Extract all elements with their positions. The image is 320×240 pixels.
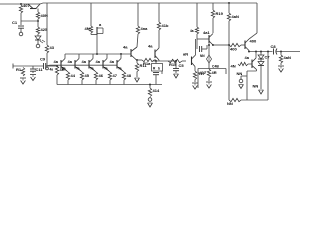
label Q5	[82, 59, 87, 64]
label Q6	[96, 59, 101, 64]
label Q12	[250, 39, 257, 44]
resistor R16 R11	[135, 60, 138, 72]
wire feedback bottom	[241, 99, 268, 101]
svg-text:C7: C7	[265, 55, 271, 60]
ground R21	[206, 78, 212, 89]
wire rail drop x197	[196, 3, 198, 39]
svg-text:4a: 4a	[190, 29, 194, 33]
ground C5	[174, 74, 179, 78]
svg-text:Ta: Ta	[118, 67, 122, 71]
label D2	[265, 55, 271, 60]
svg-text:43: 43	[50, 45, 55, 50]
wire D3 down	[260, 66, 262, 90]
wire Q11 base	[197, 38, 209, 40]
pin Q13 gnd	[239, 79, 244, 88]
resistor R8 4N	[227, 3, 230, 45]
svg-text:R: R	[153, 67, 156, 71]
resistor R7 R19	[211, 3, 214, 33]
svg-text:4N: 4N	[85, 26, 90, 31]
capacitor C9 series	[44, 63, 46, 69]
wire input y66	[13, 64, 43, 69]
transistor Q9	[155, 48, 159, 60]
resistor R17 R13	[142, 58, 154, 61]
transistor Q7	[117, 54, 124, 72]
label R11	[71, 73, 76, 78]
svg-text:46: 46	[99, 73, 104, 78]
label C9	[40, 57, 46, 62]
wire collector bus y54	[65, 53, 131, 55]
wire Q12 collector	[249, 33, 257, 39]
wire emitter y45	[213, 44, 229, 46]
transistor Q13	[245, 55, 257, 70]
svg-text:44: 44	[71, 73, 76, 78]
label D3	[253, 84, 259, 89]
ground C11	[30, 75, 36, 81]
wire output node y52	[248, 51, 273, 53]
pin 3 terminal	[36, 44, 40, 48]
resistor R9 R1	[21, 68, 24, 77]
label C11	[36, 67, 44, 72]
label Q4	[68, 59, 73, 64]
wire rail right corner drop	[256, 3, 258, 33]
svg-text:C4B: C4B	[212, 65, 219, 69]
pin R18 terminal	[148, 98, 153, 107]
pin 14 terminal	[46, 53, 49, 70]
svg-text:4a: 4a	[123, 45, 128, 50]
capacitor C5	[173, 61, 179, 73]
svg-text:NN: NN	[237, 71, 243, 76]
resistor R2 40N	[36, 12, 39, 27]
label Q11	[203, 30, 210, 35]
svg-text:aN: aN	[183, 52, 188, 57]
diode D1	[35, 36, 45, 44]
label C8	[271, 44, 277, 49]
label R20 R17	[198, 71, 206, 76]
label R21 417	[200, 70, 207, 75]
svg-text:NN: NN	[200, 54, 205, 58]
ground R23	[278, 63, 284, 72]
resistor R5	[89, 26, 92, 33]
label R27	[190, 29, 194, 33]
wire Q10 collector	[195, 39, 197, 55]
label R12	[85, 73, 90, 78]
node load	[280, 51, 282, 53]
label R22 400	[230, 47, 237, 52]
transistor Q10	[192, 55, 196, 67]
current source I1	[200, 44, 212, 63]
resistor R21 417	[207, 69, 210, 78]
label R7 R19	[216, 11, 224, 16]
svg-text:R1: R1	[16, 67, 22, 72]
wire Q13 emitter	[237, 70, 257, 101]
diode D3	[258, 59, 264, 66]
diode D2	[258, 51, 264, 60]
label R13	[99, 73, 104, 78]
label R24 NN	[227, 101, 233, 106]
svg-text:47: 47	[113, 73, 118, 78]
label R21b	[212, 70, 217, 75]
svg-text:R1a: R1a	[143, 61, 151, 66]
node A junction on input wire	[20, 3, 22, 5]
label R10 4R	[60, 67, 65, 72]
label Q5b	[90, 67, 94, 71]
svg-text:400: 400	[250, 39, 257, 44]
label R8 4N	[232, 14, 239, 19]
label C1	[12, 20, 18, 25]
svg-text:NN: NN	[253, 84, 259, 89]
resistor R18 414	[148, 84, 151, 97]
transistor Q6	[103, 54, 110, 72]
svg-text:4a: 4a	[82, 59, 87, 64]
pin 2 terminal	[19, 32, 23, 36]
svg-text:C8: C8	[271, 44, 277, 49]
transistor Q5	[89, 54, 96, 72]
label R16 R11	[140, 63, 148, 68]
resistor R19b R15	[168, 59, 182, 62]
svg-text:R19: R19	[216, 11, 224, 16]
ground R20	[192, 80, 198, 90]
wire ground bus y85	[57, 84, 162, 86]
resistor R4 43	[45, 45, 48, 53]
svg-text:4a: 4a	[68, 59, 73, 64]
node rail x229	[228, 2, 230, 4]
label R4 43	[50, 45, 55, 50]
transistor Q1	[28, 4, 40, 9]
wire box stub	[161, 71, 163, 74]
wire feedback right edge	[267, 51, 269, 101]
svg-text:Ta: Ta	[76, 67, 80, 71]
resistor R23 load	[279, 52, 282, 64]
svg-text:4a: 4a	[50, 68, 54, 72]
resistor R11	[66, 72, 69, 85]
label Q10	[183, 52, 188, 57]
svg-text:45: 45	[85, 73, 90, 78]
ground D3	[259, 90, 264, 94]
wire Q8 emitter	[136, 59, 142, 61]
resistor R13	[94, 72, 97, 85]
capacitor C8	[274, 49, 278, 55]
svg-text:4aN: 4aN	[284, 55, 291, 60]
wire Q13 collector	[255, 51, 257, 59]
svg-text:Ta: Ta	[90, 67, 94, 71]
ground R9	[20, 78, 26, 84]
label Q8	[123, 45, 128, 50]
label R2 40N	[41, 13, 48, 18]
wire node row y21	[21, 20, 39, 22]
resistor R14	[108, 72, 111, 85]
label pin 14	[50, 68, 54, 72]
wire Q9 out	[153, 60, 176, 61]
wire rail drop x138	[137, 3, 139, 26]
transistor Q2 mirror	[91, 22, 103, 35]
resistor R22 400	[229, 43, 241, 46]
svg-text:4a: 4a	[245, 55, 250, 60]
svg-text:R15: R15	[169, 62, 177, 67]
label R14	[113, 73, 118, 78]
resistor R20 R17	[193, 71, 196, 80]
node feedback	[228, 44, 230, 46]
label Q3	[54, 59, 59, 64]
svg-text:4a: 4a	[110, 59, 115, 64]
transistor Q3	[61, 54, 68, 72]
node C5	[175, 60, 177, 62]
svg-text:NN: NN	[227, 101, 233, 106]
label R26	[162, 23, 169, 28]
wire rail drop x91	[90, 3, 92, 26]
label R15	[127, 73, 132, 78]
label Q7	[110, 59, 115, 64]
transistor Q12	[245, 39, 249, 51]
wire y68 row	[198, 65, 226, 89]
node Q11 emitter	[212, 44, 214, 46]
svg-text:4a1: 4a1	[203, 30, 210, 35]
resistor R1 407	[19, 5, 22, 21]
wire base bus y66	[46, 64, 117, 67]
wire R15 to Q10	[182, 60, 186, 62]
wire top supply rail	[0, 3, 257, 4]
transistor Q4	[75, 54, 82, 72]
wire to Q9	[154, 59, 156, 61]
wire to Q12 base	[241, 44, 245, 46]
svg-text:4a: 4a	[148, 44, 153, 49]
label R19b R15	[169, 62, 177, 67]
resistor R27	[195, 27, 198, 34]
capacitor C11	[30, 66, 36, 73]
svg-text:4na: 4na	[141, 26, 149, 31]
label R3 425	[41, 27, 48, 32]
svg-text:C1: C1	[12, 20, 18, 25]
svg-text:414: 414	[153, 88, 160, 93]
label Q9	[148, 44, 153, 49]
wire rail drop x47	[46, 3, 48, 45]
svg-text:4a: 4a	[96, 59, 101, 64]
resistor R24 NN	[229, 98, 241, 101]
resistor R15	[122, 72, 125, 85]
svg-text:C11: C11	[36, 67, 44, 72]
svg-text:4N: 4N	[231, 64, 236, 69]
svg-text:4R: 4R	[212, 70, 217, 75]
wire after C9	[46, 65, 57, 67]
wire feedback left edge	[228, 45, 230, 100]
label R25	[231, 64, 236, 69]
node x57	[56, 65, 58, 67]
wire output right	[277, 51, 301, 53]
resistor R3 425	[36, 27, 39, 36]
label R17 R13	[143, 61, 151, 66]
label R6	[141, 26, 149, 31]
label Q4b	[76, 67, 80, 71]
svg-text:400: 400	[230, 47, 237, 52]
svg-text:4aN: 4aN	[232, 14, 239, 19]
label R1 407	[23, 3, 30, 8]
capacitor C12	[153, 60, 159, 85]
svg-text:417: 417	[200, 70, 207, 75]
resistor R26	[157, 22, 160, 30]
label R23	[284, 55, 291, 60]
resistor R10 4R	[55, 66, 58, 85]
wire Q10 emitter	[194, 67, 196, 72]
wire rail drop x159	[158, 3, 160, 48]
svg-text:C5: C5	[179, 63, 185, 68]
wire Q1 to column	[37, 9, 39, 13]
svg-text:a: a	[99, 22, 102, 27]
capacitor C10 comp	[197, 39, 207, 52]
svg-text:Ta: Ta	[62, 67, 66, 71]
transistor Q11	[209, 34, 213, 46]
label R5	[85, 26, 90, 31]
label C5	[179, 63, 185, 68]
wire I1 down	[208, 63, 210, 69]
label R9	[16, 67, 22, 72]
resistor R12	[80, 72, 83, 85]
ground R16	[135, 72, 140, 83]
svg-text:41b: 41b	[162, 23, 169, 28]
box bypass	[152, 64, 163, 72]
svg-text:48: 48	[127, 73, 132, 78]
transistor Q8	[131, 47, 137, 60]
resistor R6	[136, 26, 139, 47]
label Q7b	[118, 67, 122, 71]
resistor R25 bias	[238, 62, 248, 65]
svg-text:b: b	[158, 67, 160, 71]
svg-text:C9: C9	[40, 57, 46, 62]
label Q3b	[62, 67, 66, 71]
capacitor C1	[18, 21, 24, 32]
svg-text:4a: 4a	[54, 59, 59, 64]
label R18 414	[153, 88, 160, 93]
label Q6b	[104, 67, 108, 71]
wire mirror to bus	[96, 35, 98, 56]
svg-text:Ta: Ta	[104, 67, 108, 71]
